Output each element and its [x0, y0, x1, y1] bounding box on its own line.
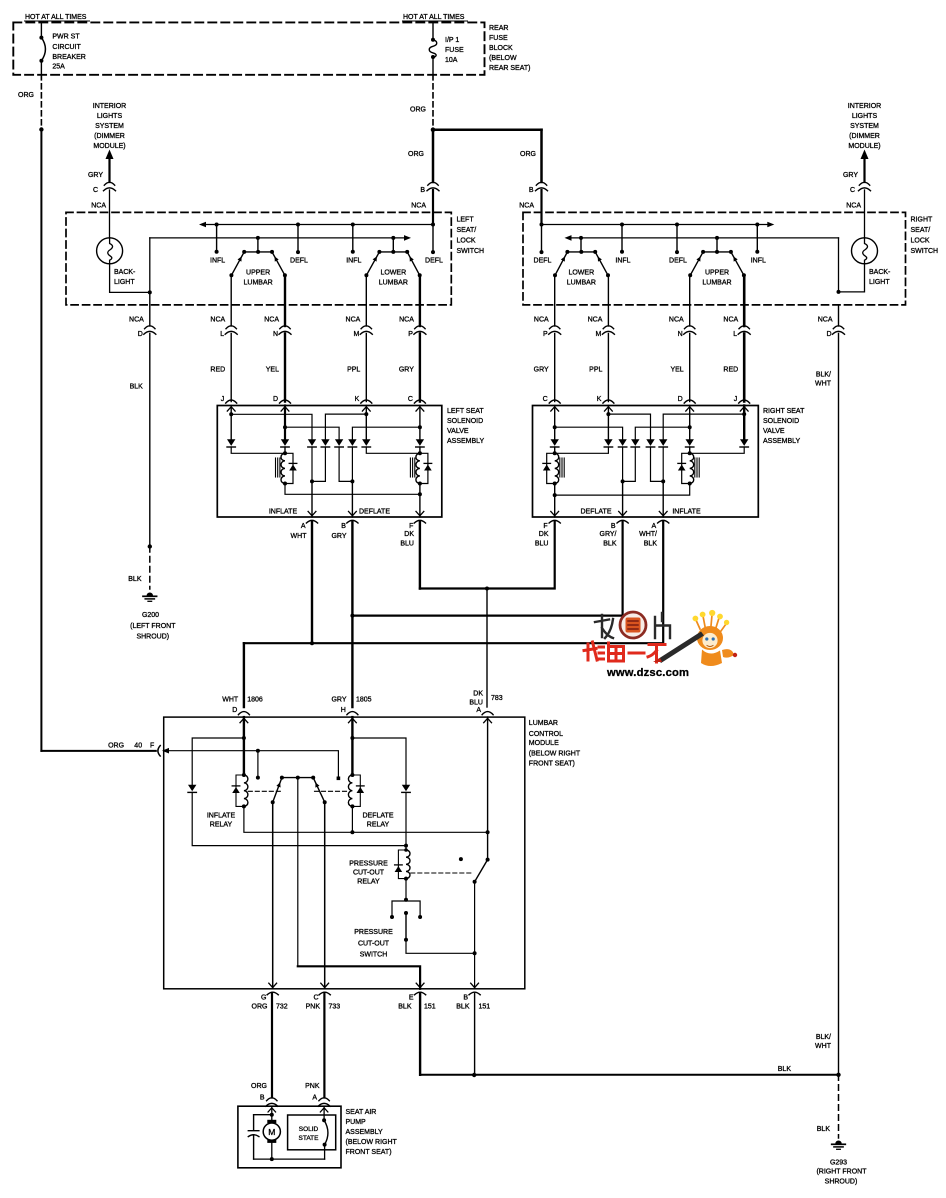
- wire B output inside right: [622, 481, 624, 517]
- wire G output inside: [272, 802, 274, 989]
- connector D left assembly input: [280, 400, 291, 403]
- svg-text:SHROUD): SHROUD): [825, 1179, 858, 1186]
- wire mid1 loop: [312, 447, 325, 481]
- svg-text:ORG: ORG: [410, 107, 426, 114]
- svg-text:ORG: ORG: [108, 742, 124, 749]
- wire D to mid2: [285, 427, 339, 439]
- svg-text:DEFLATE: DEFLATE: [581, 509, 612, 516]
- wire left diode down: [192, 792, 406, 845]
- wire BLK left D column: [149, 334, 151, 547]
- svg-text:HOT AT ALL TIMES: HOT AT ALL TIMES: [403, 14, 465, 21]
- svg-text:F: F: [543, 523, 547, 530]
- svg-text:A: A: [301, 523, 306, 530]
- svg-text:BACK-: BACK-: [869, 269, 891, 276]
- pressure cutout relay coil: [404, 848, 408, 852]
- label G200 (LEFT FRONT SHROUD): [130, 612, 176, 641]
- svg-text:ORG: ORG: [18, 92, 34, 99]
- diode K right: [604, 439, 612, 446]
- connector C right assembly input: [549, 400, 560, 403]
- wire ORG to pump: [271, 994, 273, 1098]
- svg-text:BLK: BLK: [778, 1066, 792, 1073]
- wire bus2 left switch: [150, 237, 404, 239]
- svg-text:LIGHTS: LIGHTS: [852, 113, 878, 120]
- pressure cutout switch contact: [404, 911, 408, 915]
- wire A-col down: [311, 447, 313, 481]
- arc solid state: [324, 1120, 328, 1144]
- svg-text:B: B: [463, 995, 468, 1002]
- diode N2: [646, 439, 654, 446]
- connector B right assembly output: [619, 511, 627, 515]
- solenoid coil right (inflate) right assy: [690, 453, 694, 483]
- fuse I/P 1 10A: [429, 22, 437, 74]
- svg-text:L: L: [220, 331, 224, 338]
- svg-text:DK: DK: [404, 531, 414, 538]
- svg-text:B: B: [420, 187, 425, 194]
- svg-text:DEFL: DEFL: [534, 258, 552, 265]
- svg-text:GRY/: GRY/: [600, 531, 617, 538]
- wire deflate coil bottom: [351, 806, 353, 832]
- wire ORG right branch vertical: [540, 130, 543, 182]
- svg-text:www.dzsc.com: www.dzsc.com: [606, 667, 689, 679]
- svg-text:F: F: [409, 523, 413, 530]
- connector K right assembly input: [603, 400, 614, 403]
- node coil-R top: [419, 447, 421, 453]
- svg-text:LEFT SEAT: LEFT SEAT: [447, 408, 484, 415]
- svg-text:C: C: [93, 187, 98, 194]
- wire YEL: [284, 334, 286, 402]
- wire pump A inside: [323, 1106, 325, 1121]
- wire C to B-col: [555, 427, 623, 439]
- svg-text:LUMBAR: LUMBAR: [567, 280, 596, 287]
- wire mid2 to B node: [339, 447, 352, 481]
- svg-text:DEFL: DEFL: [425, 258, 443, 265]
- connector D right assembly input: [684, 400, 695, 403]
- connector B left assembly output: [349, 511, 357, 515]
- wire K to N2: [608, 414, 650, 439]
- svg-text:BLK: BLK: [128, 576, 142, 583]
- wire NCA into right switch: [540, 190, 542, 225]
- deflate relay coil: [348, 775, 352, 806]
- label SEAT AIR PUMP ASSEMBLY (BELOW RIGHT FRONT SEAT): [346, 1109, 398, 1156]
- svg-text:25A: 25A: [52, 64, 65, 71]
- wire GRY down to module H: [351, 616, 353, 707]
- svg-text:LOCK: LOCK: [911, 237, 930, 244]
- svg-text:PRESSURE: PRESSURE: [349, 861, 388, 868]
- node fuse splice: [431, 127, 436, 132]
- wire to deflate contact: [258, 751, 339, 777]
- wire K diode to coil-L: [555, 447, 609, 453]
- wire N1 loop right: [623, 447, 636, 481]
- diode D: [281, 439, 289, 446]
- svg-text:DEFLATE: DEFLATE: [359, 509, 390, 516]
- svg-text:D: D: [232, 707, 237, 714]
- ground G293: [835, 1141, 841, 1144]
- node splice to G200: [148, 544, 152, 548]
- svg-text:BLK: BLK: [603, 541, 617, 548]
- relay switch bar: [282, 777, 313, 779]
- svg-text:LOWER: LOWER: [568, 270, 594, 277]
- wire H branch to right diode: [352, 738, 406, 785]
- wire module F feed inside: [162, 748, 169, 754]
- svg-text:LIGHT: LIGHT: [869, 279, 890, 286]
- svg-text:SEAT/: SEAT/: [911, 227, 931, 234]
- svg-text:PNK: PNK: [305, 1083, 320, 1090]
- connector C module output: [321, 983, 329, 987]
- svg-text:K: K: [355, 396, 360, 403]
- svg-text:BLK: BLK: [644, 541, 658, 548]
- svg-text:C: C: [408, 396, 413, 403]
- solenoid coil left (deflate) right assy: [555, 453, 559, 483]
- diode D right: [686, 439, 694, 446]
- svg-text:GRY: GRY: [534, 367, 549, 374]
- connector C backlight right: [859, 182, 869, 185]
- connector B pump: [267, 1098, 277, 1101]
- svg-text:A: A: [312, 1095, 317, 1102]
- svg-text:LUMBAR: LUMBAR: [702, 280, 731, 287]
- svg-text:E: E: [409, 995, 414, 1002]
- wire B-col up: [351, 447, 353, 481]
- svg-text:B: B: [611, 523, 616, 530]
- node coil-L top: [284, 447, 286, 453]
- wire DK BLU down to module A: [486, 589, 488, 708]
- svg-text:NCA: NCA: [411, 203, 426, 210]
- wire into switch box right: [864, 190, 866, 238]
- svg-text:PPL: PPL: [347, 367, 360, 374]
- label RIGHT SEAT/LOCK SWITCH: [911, 216, 939, 255]
- wire bus1 right switch: [542, 224, 768, 226]
- wire B column to output: [474, 953, 476, 989]
- relay switch blade right: [313, 778, 325, 803]
- svg-text:LEFT: LEFT: [457, 216, 475, 223]
- wire N1 to D node: [635, 427, 689, 439]
- wire F output inside right: [554, 495, 556, 517]
- wire YEL: [689, 334, 691, 402]
- wire B output inside: [351, 481, 353, 517]
- wire riser to bus2: [149, 238, 151, 293]
- contact NO pressure relay: [459, 857, 463, 861]
- svg-text:SWITCH: SWITCH: [457, 248, 485, 255]
- svg-text:BLK: BLK: [817, 1126, 831, 1133]
- svg-text:GRY: GRY: [843, 172, 858, 179]
- svg-text:PWR ST: PWR ST: [52, 34, 80, 41]
- diode N1: [631, 439, 639, 446]
- stub DEFL upper-left: [296, 223, 300, 227]
- svg-text:WHT/: WHT/: [639, 531, 657, 538]
- svg-text:SOLENOID: SOLENOID: [763, 418, 799, 425]
- svg-text:NCA: NCA: [210, 317, 225, 324]
- svg-text:(BELOW RIGHT: (BELOW RIGHT: [346, 1139, 398, 1146]
- svg-text:C: C: [850, 187, 855, 194]
- connector L: [226, 326, 236, 329]
- svg-text:PNK: PNK: [306, 1004, 321, 1011]
- wire inflate coil bottom: [244, 806, 353, 832]
- wire WHT horizontal: [244, 522, 663, 644]
- wire right diode down: [405, 792, 407, 850]
- wire BLK/WHT right long vertical: [838, 334, 840, 1075]
- svg-text:NCA: NCA: [399, 317, 414, 324]
- svg-text:LOCK: LOCK: [457, 237, 476, 244]
- right seat solenoid valve assembly box: [533, 406, 759, 518]
- right seat/lock switch dashed box: [523, 212, 906, 305]
- wire A output inside right: [662, 481, 664, 517]
- wire DK BLU from left F output: [419, 522, 421, 589]
- connector G module output: [269, 983, 277, 987]
- stub DEFL upper-right: [675, 223, 679, 227]
- wire coil-L bottom to F col: [285, 484, 420, 495]
- wire column P x=554.7: [554, 275, 556, 326]
- wire K input right: [607, 406, 609, 440]
- wire GRY: [419, 334, 421, 402]
- wire to inflate contact: [257, 751, 259, 778]
- wire column N x=285.0: [284, 275, 286, 326]
- svg-text:WHT: WHT: [222, 697, 239, 704]
- wire bottom bus pump: [254, 1158, 325, 1160]
- suppression diode inflate: [285, 453, 293, 483]
- svg-text:ASSEMBLY: ASSEMBLY: [447, 438, 485, 445]
- svg-text:LIGHTS: LIGHTS: [97, 113, 123, 120]
- wire ORG dashed below breaker: [40, 75, 42, 130]
- svg-text:ORG: ORG: [408, 151, 424, 158]
- svg-text:FUSE: FUSE: [489, 35, 508, 42]
- wire RED: [743, 334, 746, 402]
- svg-text:DEFL: DEFL: [290, 258, 308, 265]
- connector E module output: [416, 983, 424, 987]
- svg-text:FUSE: FUSE: [445, 47, 464, 54]
- seat air pump assembly box: [238, 1106, 341, 1168]
- diode A-col right: [659, 439, 667, 446]
- svg-text:B: B: [529, 187, 534, 194]
- svg-text:BLK: BLK: [398, 1004, 412, 1011]
- svg-text:SWITCH: SWITCH: [360, 952, 388, 959]
- connector C backlight left: [104, 182, 114, 185]
- svg-text:NCA: NCA: [818, 317, 833, 324]
- wire bus2 right switch: [565, 235, 572, 241]
- svg-text:LOWER: LOWER: [380, 270, 406, 277]
- diode J right: [740, 439, 748, 446]
- svg-text:GRY: GRY: [331, 533, 346, 540]
- solid state box: [288, 1115, 336, 1150]
- lamp backlight left: [97, 238, 123, 264]
- wire D input right: [689, 406, 691, 440]
- svg-text:NCA: NCA: [846, 203, 861, 210]
- wire ORG to left B connector: [432, 130, 435, 182]
- svg-text:UPPER: UPPER: [246, 270, 270, 277]
- label LEFT SEAT/LOCK SWITCH: [457, 216, 485, 255]
- svg-text:(DIMMER: (DIMMER: [849, 133, 880, 140]
- svg-text:INFL: INFL: [210, 258, 225, 265]
- switch UPPER LUMBAR right: [715, 236, 719, 240]
- connector A right assembly output: [659, 511, 667, 515]
- svg-text:CUT-OUT: CUT-OUT: [358, 941, 390, 948]
- mech link deflate: [315, 790, 348, 792]
- circuit breaker PWR ST 25A: [39, 22, 45, 74]
- svg-text:BLOCK: BLOCK: [489, 45, 513, 52]
- svg-text:VALVE: VALVE: [447, 428, 469, 435]
- svg-text:BLK: BLK: [456, 1004, 470, 1011]
- lamp backlight right: [852, 238, 878, 264]
- wire BLK dashed to G293: [838, 1075, 840, 1138]
- svg-text:RED: RED: [210, 367, 225, 374]
- svg-text:NCA: NCA: [723, 317, 738, 324]
- svg-text:NCA: NCA: [669, 317, 684, 324]
- svg-text:VALVE: VALVE: [763, 428, 785, 435]
- svg-text:GRY: GRY: [331, 697, 346, 704]
- wire E feed: [297, 778, 299, 967]
- wire BLK B down: [474, 994, 476, 1076]
- svg-text:M: M: [353, 331, 359, 338]
- wire GRY: [554, 334, 556, 402]
- wire D to inflate coil: [243, 717, 245, 775]
- wire column L x=744.2: [743, 275, 746, 326]
- stub INFL upper-right: [755, 223, 759, 227]
- connector P: [415, 326, 425, 329]
- connector C left assembly input: [414, 400, 425, 403]
- connector D module input: [238, 712, 249, 715]
- svg-text:NCA: NCA: [91, 203, 106, 210]
- svg-text:INFL: INFL: [615, 258, 630, 265]
- svg-text:732: 732: [276, 1004, 288, 1011]
- svg-text:YEL: YEL: [266, 367, 279, 374]
- wire GRY to dimmer right: [861, 150, 869, 160]
- suppression diode deflate: [420, 453, 428, 483]
- connector F at module: [158, 746, 160, 756]
- svg-text:LUMBAR: LUMBAR: [379, 280, 408, 287]
- svg-text:SEAT/: SEAT/: [457, 227, 477, 234]
- svg-text:MODULE: MODULE: [529, 740, 559, 747]
- node INTERIOR LIGHTS SYSTEM left: [93, 103, 126, 150]
- svg-text:NCA: NCA: [588, 317, 603, 324]
- diode mid1: [321, 439, 329, 446]
- svg-text:RED: RED: [723, 367, 738, 374]
- svg-text:A: A: [652, 523, 657, 530]
- wire column M x=366.3: [365, 275, 367, 326]
- svg-text:NCA: NCA: [129, 317, 144, 324]
- svg-text:1806: 1806: [247, 697, 263, 704]
- wire B column: [474, 882, 476, 954]
- wire BLK E down: [419, 994, 421, 1075]
- wire K input: [365, 406, 367, 440]
- connector B module output: [471, 983, 479, 987]
- wire ORG horizontal to right branch: [433, 128, 542, 131]
- splice node S: [39, 127, 43, 131]
- svg-text:INFL: INFL: [751, 258, 766, 265]
- diode K: [362, 439, 370, 446]
- connector L: [739, 326, 749, 329]
- label PWR ST CIRCUIT BREAKER 25A: [52, 34, 85, 71]
- wire A output inside: [311, 481, 313, 517]
- svg-text:C: C: [313, 995, 318, 1002]
- node coil-R top right: [689, 447, 691, 453]
- wire NCA into left switch: [432, 190, 434, 225]
- relay blade pressure: [475, 860, 488, 882]
- wire WHT from left A output: [311, 522, 313, 644]
- rear fuse block dashed box: [13, 22, 484, 74]
- diode J: [227, 439, 235, 446]
- svg-text:P: P: [543, 331, 548, 338]
- wire ORG dashed below fuse: [432, 75, 434, 130]
- svg-text:SEAT AIR: SEAT AIR: [346, 1109, 377, 1116]
- wire C input right: [554, 406, 556, 440]
- svg-text:J: J: [221, 396, 225, 403]
- wire A branch down: [324, 1145, 326, 1160]
- svg-text:G293: G293: [830, 1160, 847, 1167]
- stub DEFL lower-left (B feed): [432, 225, 434, 253]
- svg-text:RELAY: RELAY: [367, 822, 390, 829]
- svg-text:H: H: [341, 707, 346, 714]
- pressure cutout switch top: [405, 879, 407, 900]
- connector K left assembly input: [361, 400, 372, 403]
- inflate relay coil: [244, 775, 248, 806]
- wire BLK horizontal to G293: [420, 1074, 838, 1076]
- wire motor bottom: [271, 1143, 273, 1159]
- suppression diode deflate relay: [352, 775, 360, 806]
- connector F left assembly output: [416, 511, 424, 515]
- wire B-col down right: [622, 447, 624, 481]
- wire J diode to coil top: [231, 447, 285, 453]
- wire ORG main left vertical: [40, 130, 42, 751]
- diode B-col right: [618, 439, 626, 446]
- wire DK BLU horizontal: [420, 522, 555, 589]
- svg-text:RELAY: RELAY: [210, 822, 233, 829]
- connector F right assembly output: [551, 511, 559, 515]
- svg-text:INFL: INFL: [346, 258, 361, 265]
- svg-text:P: P: [408, 331, 413, 338]
- svg-text:PRESSURE: PRESSURE: [354, 929, 393, 936]
- svg-text:A: A: [476, 707, 481, 714]
- svg-text:F: F: [150, 742, 154, 749]
- svg-text:783: 783: [491, 695, 503, 702]
- wire D input: [284, 406, 286, 440]
- motor M: [267, 1120, 276, 1123]
- svg-text:STATE: STATE: [299, 1135, 320, 1142]
- switch LOWER LUMBAR left: [391, 236, 395, 240]
- svg-text:D: D: [826, 331, 831, 338]
- svg-text:M: M: [596, 331, 602, 338]
- connector D: [145, 326, 155, 329]
- wire WHT down to module D: [243, 643, 245, 707]
- wire B-col to C node: [352, 427, 420, 439]
- wire into switch box left: [109, 190, 111, 238]
- suppression diode inflate relay: [236, 775, 244, 806]
- solenoid coil left (inflate): [281, 453, 285, 483]
- svg-text:PUMP: PUMP: [346, 1119, 367, 1126]
- suppression diode pressure relay: [398, 850, 406, 879]
- wire column P x=419.9: [419, 275, 421, 326]
- svg-text:PPL: PPL: [589, 367, 602, 374]
- svg-text:WHT: WHT: [815, 381, 832, 388]
- connector N: [685, 326, 695, 329]
- wire bus1 left switch (NCA feed): [199, 222, 206, 228]
- contact pad deflate side: [337, 777, 341, 781]
- node F col right: [554, 484, 556, 496]
- wire A-col to J node: [663, 414, 744, 439]
- wire pump B inside: [271, 1106, 273, 1120]
- label RIGHT SEAT SOLENOID VALVE ASSEMBLY: [763, 408, 805, 445]
- svg-text:I/P 1: I/P 1: [445, 37, 459, 44]
- svg-text:MODULE): MODULE): [93, 143, 125, 150]
- svg-text:D: D: [138, 331, 143, 338]
- svg-text:(LEFT FRONT: (LEFT FRONT: [130, 623, 176, 630]
- wire J to A-col: [231, 414, 312, 439]
- svg-text:C: C: [543, 396, 548, 403]
- svg-text:ASSEMBLY: ASSEMBLY: [763, 438, 801, 445]
- label LEFT SEAT SOLENOID VALVE ASSEMBLY: [447, 408, 485, 445]
- diode deflate right: [402, 785, 410, 792]
- svg-text:BLK/: BLK/: [816, 1034, 831, 1041]
- left seat/lock switch dashed box: [66, 212, 451, 305]
- svg-text:ORG: ORG: [252, 1004, 268, 1011]
- svg-text:INTERIOR: INTERIOR: [848, 103, 881, 110]
